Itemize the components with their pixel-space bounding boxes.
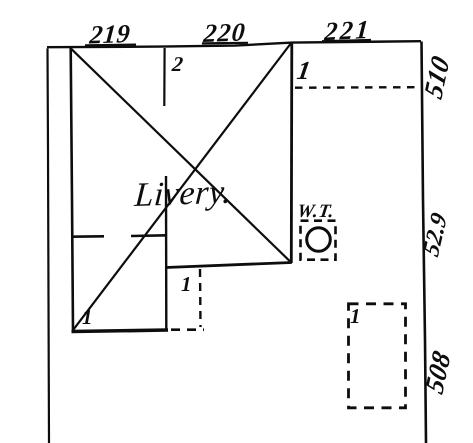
svg-text:Livery.: Livery.	[132, 174, 233, 215]
interior partition right segment	[131, 234, 167, 237]
lot number 219 underline	[85, 43, 136, 46]
lot number 220	[201, 17, 247, 48]
svg-text:221: 221	[323, 15, 372, 47]
storey label 1 (rear corner)	[82, 305, 93, 329]
street address 510	[418, 51, 455, 103]
left street line	[48, 49, 50, 443]
svg-text:1: 1	[82, 305, 93, 329]
building use label: Livery	[132, 174, 233, 215]
svg-text:2: 2	[170, 52, 185, 76]
lot number 219	[87, 19, 131, 50]
top block line	[47, 41, 421, 47]
diagonal brace (top-right to bottom-left)	[72, 43, 291, 332]
dashed annex bottom edge	[171, 328, 204, 331]
lot number 221	[323, 15, 372, 47]
svg-text:1: 1	[181, 272, 192, 296]
lot number 221 underline	[322, 40, 371, 41]
storey count label 2	[170, 52, 185, 76]
livery building lower wall (main section)	[166, 263, 292, 268]
svg-text:510: 510	[418, 51, 455, 103]
water tank circle	[307, 228, 331, 252]
dashed setback line (510 lot)	[295, 86, 418, 89]
svg-text:1: 1	[350, 304, 361, 328]
livery building bottom wall (rear section)	[72, 330, 169, 332]
interior wall vertical	[165, 176, 168, 330]
water tank label W.T.	[296, 201, 336, 222]
diagonal brace (top-left to bottom-right)	[71, 49, 291, 262]
lot number 220 underline	[202, 42, 248, 45]
interior partition left segment	[71, 235, 104, 238]
dashed annex right edge	[199, 269, 202, 327]
svg-text:219: 219	[87, 19, 131, 50]
livery building left wall	[71, 48, 73, 331]
livery building right wall	[290, 42, 293, 263]
water tank enclosure (dashed square)	[301, 221, 336, 260]
party wall tick	[163, 48, 166, 106]
storey label 1 (outbuilding)	[350, 304, 361, 328]
storey label 1 (annex)	[181, 272, 192, 296]
street address 508	[419, 346, 456, 398]
street address 52.9	[419, 209, 453, 260]
storey label 1 (510 lot)	[295, 56, 313, 85]
right street line	[422, 42, 427, 443]
svg-text:W.T.: W.T.	[296, 201, 336, 222]
dashed outbuilding (bottom right)	[349, 304, 406, 408]
svg-text:220: 220	[201, 17, 247, 48]
svg-text:1: 1	[295, 56, 313, 85]
